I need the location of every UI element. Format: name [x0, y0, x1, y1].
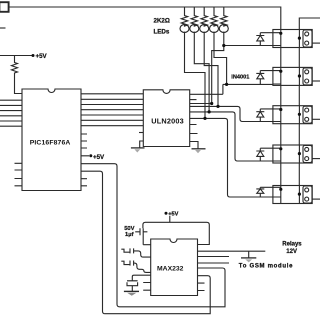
svg-text:+5V: +5V: [93, 154, 105, 161]
svg-text:Relays: Relays: [282, 242, 302, 248]
svg-text:12V: 12V: [286, 249, 297, 255]
svg-text:ULN2003: ULN2003: [151, 116, 184, 125]
svg-text:1µf: 1µf: [125, 232, 134, 238]
svg-text:To GSM module: To GSM module: [239, 264, 293, 270]
svg-text:PIC16F876A: PIC16F876A: [30, 139, 71, 146]
svg-text:+5V: +5V: [168, 212, 178, 218]
svg-text:LEDs: LEDs: [154, 28, 170, 35]
svg-text:+5V: +5V: [36, 53, 48, 60]
svg-text:IN4001: IN4001: [231, 74, 249, 80]
svg-text:MAX232: MAX232: [157, 266, 184, 273]
svg-text:2K2Ω: 2K2Ω: [154, 17, 170, 24]
